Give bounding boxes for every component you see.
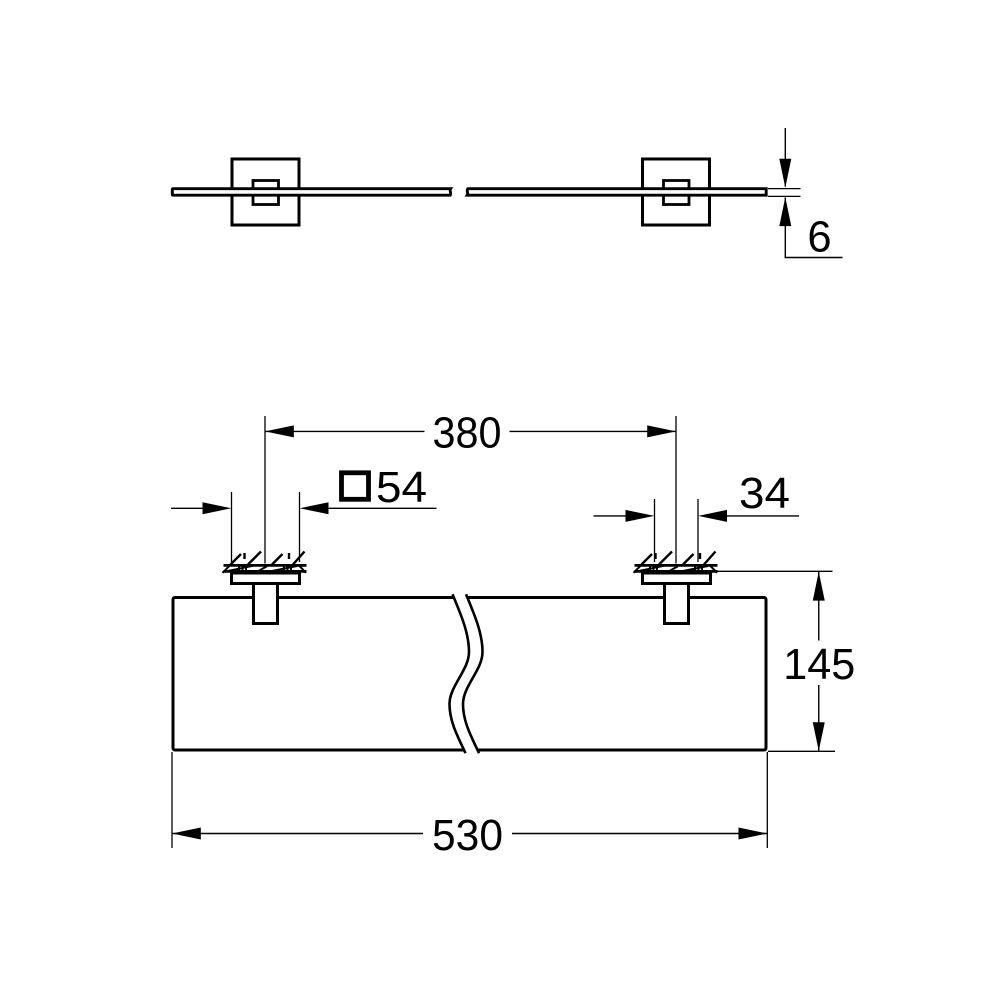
- square symbol for 54: [342, 473, 369, 500]
- dimension 530: line and arrows: [172, 828, 767, 840]
- dimension 380: line and arrows: [265, 425, 676, 437]
- glass shelf edge, right segment (top view): [467, 189, 766, 196]
- extension line: right bracket 34 left: [654, 499, 656, 562]
- left bracket wall plate (front view): [232, 573, 300, 584]
- glass shelf front face: [173, 598, 766, 751]
- right bracket post (front view): [665, 584, 689, 624]
- dimension 380: label: [433, 410, 502, 458]
- glass shelf edge, left segment (top view): [172, 189, 450, 196]
- left bracket wall lines: [224, 565, 307, 571]
- svg-text:6: 6: [807, 214, 831, 262]
- dimension 6: lower arrow and line: [779, 197, 791, 257]
- right bracket wall plate (front view): [643, 573, 711, 584]
- left wall bracket inner boss (top view): [253, 181, 279, 205]
- dimension 6: label: [807, 214, 831, 262]
- dimension 6: extension lines: [768, 189, 801, 197]
- dimension 34: right arrow: [698, 510, 799, 522]
- left wall bracket outer square (top view): [232, 159, 299, 225]
- dimension 34: left arrow: [594, 510, 655, 522]
- dimension 54: right arrow: [300, 502, 437, 514]
- right wall bracket outer square (top view): [643, 159, 710, 225]
- extension line: left bracket centre: [264, 416, 266, 564]
- dimension 6: leader line: [785, 257, 843, 259]
- dimension 54: label: [376, 464, 427, 512]
- svg-text:34: 34: [739, 470, 790, 518]
- extension line: 145 bottom: [768, 750, 835, 752]
- dimension 34: label: [739, 470, 790, 518]
- left bracket wall hatching: [223, 552, 307, 573]
- dimension 54: left arrow: [171, 502, 231, 514]
- left bracket post (front view): [254, 584, 278, 624]
- break line (white band with S-curves): [450, 594, 483, 753]
- svg-text:380: 380: [433, 410, 502, 458]
- extension line: left bracket left edge: [231, 492, 233, 562]
- dimension 6: upper arrow and line: [779, 128, 791, 188]
- dimension 145: label: [783, 641, 855, 689]
- svg-text:145: 145: [783, 641, 855, 689]
- extension line: 530 left: [171, 752, 173, 848]
- svg-text:530: 530: [432, 812, 503, 860]
- right wall bracket inner boss (top view): [664, 181, 690, 205]
- extension line: right bracket centre: [675, 416, 677, 564]
- dimension 530: label: [432, 812, 503, 860]
- extension line: left bracket right edge: [299, 492, 301, 562]
- right bracket wall lines: [635, 565, 718, 571]
- extension line: right bracket 34 right: [697, 499, 699, 562]
- extension line: 145 top: [718, 570, 833, 572]
- right bracket wall hatching: [634, 552, 718, 573]
- svg-text:54: 54: [376, 464, 427, 512]
- dimension 145: line and arrows: [813, 572, 825, 751]
- extension line: 530 right: [766, 752, 768, 848]
